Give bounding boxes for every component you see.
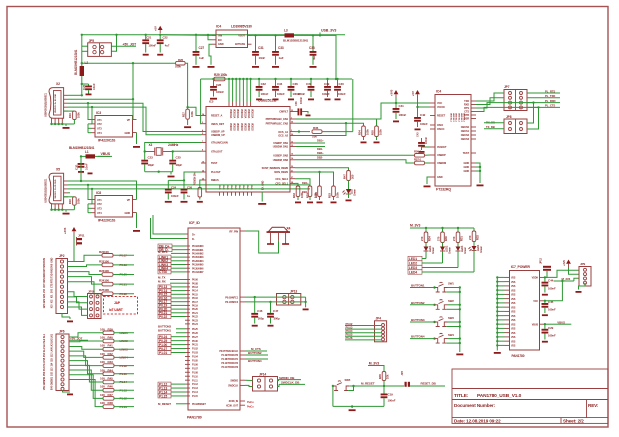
svg-text:P0.17: P0.17 bbox=[192, 301, 199, 304]
svg-text:1uF: 1uF bbox=[279, 56, 284, 60]
svg-text:PLLFILT: PLLFILT bbox=[211, 170, 221, 174]
PAN1780 left low pins bbox=[185, 328, 190, 330]
wire JP7 row extensions bbox=[504, 102, 534, 104]
wire USB_3V3 rail to caps row bbox=[214, 78, 352, 80]
svg-text:XTALOUT: XTALOUT bbox=[211, 149, 223, 153]
svg-text:100: 100 bbox=[100, 385, 105, 389]
capacitor C41 bbox=[395, 103, 397, 108]
svg-text:GND: GND bbox=[464, 161, 470, 165]
svg-text:R18: R18 bbox=[68, 199, 72, 204]
wire crystal gnd bus bbox=[145, 171, 173, 173]
svg-text:LED1: LED1 bbox=[409, 257, 417, 261]
hub top pins to rail bbox=[228, 79, 230, 102]
PAN1780 right NFC pins bbox=[240, 296, 245, 298]
svg-text:JP14: JP14 bbox=[259, 373, 266, 377]
wire L3 to USB_3V3 bbox=[294, 35, 336, 79]
svg-text:GP3: GP3 bbox=[43, 303, 46, 308]
svg-text:P1.15: P1.15 bbox=[159, 394, 167, 398]
net label DB_D- bbox=[158, 248, 172, 252]
svg-text:GND: GND bbox=[464, 169, 470, 173]
svg-text:GND: GND bbox=[236, 184, 238, 189]
svg-text:VSS: VSS bbox=[511, 299, 516, 301]
capacitor C27 bbox=[195, 35, 197, 51]
svg-text:USBDP_DN1: USBDP_DN1 bbox=[273, 141, 288, 145]
svg-text:P0.13: P0.13 bbox=[192, 286, 199, 289]
svg-text:P0.27: P0.27 bbox=[192, 336, 199, 339]
wire JP2 staircase bbox=[68, 255, 103, 261]
svg-text:X3: X3 bbox=[149, 143, 153, 147]
resistor R35 bbox=[382, 372, 386, 381]
svg-text:VCC: VCC bbox=[437, 101, 442, 105]
PAN1780 RF pin bbox=[240, 230, 245, 232]
wire R26 left bbox=[82, 62, 176, 64]
svg-text:R36: R36 bbox=[313, 126, 319, 130]
svg-text:100k: 100k bbox=[300, 192, 304, 198]
svg-text:R57 0: R57 0 bbox=[414, 158, 422, 162]
wire reset node bbox=[383, 385, 385, 387]
svg-text:R31: R31 bbox=[460, 236, 464, 241]
X5 pin stubs bbox=[64, 180, 68, 182]
svg-text:270: 270 bbox=[452, 236, 456, 241]
wire JP6 staircase bbox=[69, 370, 103, 390]
wire JP2 staircase bbox=[68, 272, 103, 275]
svg-text:100: 100 bbox=[100, 327, 105, 331]
svg-text:VIN: VIN bbox=[218, 33, 222, 37]
svg-text:100k: 100k bbox=[77, 198, 81, 204]
svg-text:R34: R34 bbox=[428, 236, 432, 241]
svg-text:P0.25: P0.25 bbox=[192, 328, 199, 331]
svg-text:VSS: VSS bbox=[511, 320, 516, 322]
svg-text:P0.20: P0.20 bbox=[192, 308, 199, 311]
module IC7_ID PAN1780 bbox=[188, 228, 240, 410]
svg-text:VDD33: VDD33 bbox=[247, 123, 250, 131]
svg-text:10k: 10k bbox=[386, 374, 390, 379]
svg-text:GND: GND bbox=[220, 184, 222, 189]
module IC7_POWER bbox=[510, 271, 540, 351]
svg-text:VSS: VSS bbox=[511, 329, 516, 331]
capacitor C24 bbox=[167, 180, 169, 188]
net label DB2_D- long wire to FT bbox=[295, 160, 415, 163]
svg-text:USBDM_DN2: USBDM_DN2 bbox=[273, 158, 289, 162]
svg-text:JP6: JP6 bbox=[59, 330, 65, 334]
svg-text:RBIAS: RBIAS bbox=[211, 178, 219, 182]
svg-text:P1.02: P1.02 bbox=[192, 348, 199, 351]
svg-text:GND: GND bbox=[224, 184, 226, 189]
svg-text:P0.10/NFC2: P0.10/NFC2 bbox=[225, 301, 238, 304]
svg-text:1uF: 1uF bbox=[199, 56, 204, 60]
svg-text:VDDH: VDDH bbox=[532, 277, 539, 280]
svg-text:100nF: 100nF bbox=[216, 90, 224, 94]
capacitor C40 bbox=[337, 79, 339, 86]
connector JP13 bbox=[277, 294, 301, 306]
svg-text:P1.10: P1.10 bbox=[192, 375, 199, 378]
svg-text:VP: VP bbox=[127, 118, 131, 122]
svg-text:VDD33: VDD33 bbox=[243, 123, 246, 131]
capacitor C22 bbox=[159, 35, 161, 40]
svg-text:M_RESET: M_RESET bbox=[361, 382, 375, 386]
svg-text:R39: R39 bbox=[108, 327, 114, 331]
switch SW2 bbox=[431, 304, 435, 306]
svg-text:GND: GND bbox=[125, 131, 131, 135]
net label DB1_D+ bbox=[295, 142, 325, 144]
capacitor C39 bbox=[327, 79, 329, 86]
svg-text:USBDP_DN2: USBDP_DN2 bbox=[273, 154, 288, 158]
net label rows P1.1x bbox=[158, 382, 171, 386]
svg-text:R33: R33 bbox=[292, 193, 296, 198]
svg-text:CTS0: CTS0 bbox=[159, 270, 167, 274]
svg-text:100k: 100k bbox=[190, 111, 194, 117]
svg-text:PwCu: PwCu bbox=[247, 401, 254, 404]
wire JP6 staircase bbox=[69, 333, 103, 337]
svg-text:VBUS D- D+ ID GND: VBUS D- D+ ID GND bbox=[55, 179, 57, 199]
svg-text:200: 200 bbox=[351, 174, 355, 179]
svg-text:VSS: VSS bbox=[511, 307, 516, 309]
hub IC USB2512B bbox=[206, 107, 290, 193]
svg-text:P0.04/AIN2: P0.04/AIN2 bbox=[192, 253, 204, 256]
wire X2 to IC3 pins bbox=[88, 103, 91, 119]
pullup resistor R50 bbox=[295, 172, 320, 186]
svg-text:C39: C39 bbox=[324, 82, 330, 86]
resistor R42 100 bbox=[103, 356, 114, 360]
wire JP2 pin1 to +3V3 bbox=[68, 252, 75, 262]
svg-text:C21: C21 bbox=[146, 35, 151, 39]
svg-text:R43: R43 bbox=[108, 360, 114, 364]
svg-text:C24: C24 bbox=[171, 186, 176, 190]
svg-text:JP11: JP11 bbox=[78, 234, 85, 238]
svg-text:C36: C36 bbox=[294, 101, 298, 106]
svg-text:R21100: R21100 bbox=[99, 250, 109, 254]
button common rail to gnd bbox=[459, 288, 461, 353]
wire VDDH node bbox=[545, 271, 547, 277]
svg-text:100: 100 bbox=[100, 352, 105, 356]
svg-text:VBUS: VBUS bbox=[532, 323, 539, 326]
wire JP2 staircase bbox=[68, 282, 103, 294]
svg-text:100: 100 bbox=[100, 360, 105, 364]
resistor R44 100 bbox=[103, 372, 114, 376]
X2 shield GND pins bbox=[51, 118, 53, 124]
svg-text:UT1: UT1 bbox=[97, 198, 102, 202]
svg-text:P0.07/TRACECLK: P0.07/TRACECLK bbox=[219, 350, 238, 353]
svg-text:100k: 100k bbox=[379, 129, 383, 135]
svg-text:XC0K_IN: XC0K_IN bbox=[229, 400, 239, 403]
svg-text:100nF: 100nF bbox=[420, 122, 428, 126]
svg-text:PAN1780: PAN1780 bbox=[512, 354, 525, 358]
svg-text:VSS: VSS bbox=[511, 346, 516, 348]
svg-text:100k: 100k bbox=[175, 65, 181, 69]
svg-text:IC4: IC4 bbox=[436, 90, 441, 94]
resistor R21 100 bbox=[102, 254, 113, 258]
JP6 GND bbox=[63, 391, 71, 393]
svg-text:UT2: UT2 bbox=[97, 202, 102, 206]
svg-text:RTS: RTS bbox=[51, 278, 54, 283]
svg-text:100: 100 bbox=[100, 401, 105, 405]
svg-text:PAN1780_USB_V1.0: PAN1780_USB_V1.0 bbox=[477, 393, 522, 399]
svg-text:3V3OUT: 3V3OUT bbox=[437, 145, 447, 149]
capacitor C26 bbox=[183, 180, 185, 188]
svg-text:VSS: VSS bbox=[511, 337, 516, 339]
svg-text:P0.08: P0.08 bbox=[192, 282, 199, 285]
svg-text:IC7_POWER: IC7_POWER bbox=[511, 265, 531, 269]
hub right pin stubs bbox=[290, 111, 295, 113]
wire XTALIN to crystal bbox=[145, 143, 201, 160]
wire 3V3 rail drop bbox=[352, 79, 354, 132]
svg-text:IP4220CZ6: IP4220CZ6 bbox=[98, 139, 115, 143]
svg-text:JP9: JP9 bbox=[580, 262, 585, 266]
svg-text:R19: R19 bbox=[68, 113, 72, 118]
svg-text:ICF_ID: ICF_ID bbox=[189, 221, 200, 225]
svg-text:GND: GND bbox=[218, 42, 224, 46]
svg-text:P1.09/TRCDAT0: P1.09/TRCDAT0 bbox=[221, 354, 238, 357]
svg-text:R53: R53 bbox=[328, 193, 332, 198]
svg-text:UT3: UT3 bbox=[97, 127, 102, 131]
svg-text:EX_GND: EX_GND bbox=[262, 180, 265, 190]
inductor L2 bbox=[80, 66, 84, 76]
svg-text:CMFILT: CMFILT bbox=[279, 110, 288, 114]
svg-text:P1.11: P1.11 bbox=[192, 379, 198, 382]
svg-text:P0.21: P0.21 bbox=[192, 312, 199, 315]
svg-text:JP10: JP10 bbox=[88, 290, 95, 294]
hub bottom pin stubs bbox=[219, 192, 221, 196]
svg-text:100nF: 100nF bbox=[261, 92, 269, 96]
wire SW5 left drop bbox=[332, 386, 334, 406]
wire JP6 staircase bbox=[69, 356, 103, 366]
svg-text:R23: R23 bbox=[306, 193, 310, 198]
svg-text:C40: C40 bbox=[339, 82, 345, 86]
svg-text:R29 100k: R29 100k bbox=[214, 73, 227, 77]
svg-text:VDD33A: VDD33A bbox=[243, 109, 246, 119]
svg-text:GND: GND bbox=[228, 184, 230, 189]
svg-text:R44: R44 bbox=[108, 368, 114, 372]
svg-text:R46: R46 bbox=[108, 385, 114, 389]
wire JP6 staircase bbox=[69, 365, 103, 382]
svg-text:270: 270 bbox=[437, 236, 441, 241]
svg-text:GP2: GP2 bbox=[43, 298, 46, 303]
svg-text:100nF: 100nF bbox=[548, 333, 556, 337]
svg-text:USBDP: USBDP bbox=[437, 153, 446, 157]
hub left pin stubs bbox=[201, 115, 206, 117]
LED3 bbox=[457, 243, 459, 247]
svg-text:PRTPWR/LBC_EN2: PRTPWR/LBC_EN2 bbox=[266, 121, 289, 125]
svg-text:P0.30: P0.30 bbox=[192, 340, 199, 343]
crystal X3 24MHz bbox=[154, 148, 156, 156]
svg-text:VBUS_DET: VBUS_DET bbox=[211, 122, 225, 126]
wire +5V rail bbox=[82, 35, 345, 56]
svg-text:UT1: UT1 bbox=[97, 118, 102, 122]
svg-text:IC8: IC8 bbox=[96, 191, 101, 195]
resistor R36 OCS bbox=[295, 131, 310, 133]
svg-text:R45: R45 bbox=[108, 377, 114, 381]
svg-text:P0.30/AIN6: P0.30/AIN6 bbox=[192, 267, 204, 270]
svg-text:R47: R47 bbox=[108, 393, 114, 397]
svg-text:4u7: 4u7 bbox=[312, 55, 316, 60]
wire JP6 staircase bbox=[69, 346, 103, 349]
svg-text:XC0K_OUT: XC0K_OUT bbox=[226, 404, 239, 407]
IC7_POWER left gnd rail bbox=[496, 277, 498, 350]
svg-text:P0.22: P0.22 bbox=[192, 316, 199, 319]
svg-text:OSCO: OSCO bbox=[437, 127, 444, 131]
svg-text:CFG_SEL0: CFG_SEL0 bbox=[275, 177, 288, 181]
svg-text:C33: C33 bbox=[278, 46, 284, 50]
svg-text:VDD33A: VDD33A bbox=[240, 109, 243, 119]
capacitor C30 bbox=[80, 156, 82, 163]
svg-text:C47: C47 bbox=[273, 309, 279, 313]
svg-text:BLM15HB121SN1: BLM15HB121SN1 bbox=[69, 146, 95, 150]
resistor R46 100 bbox=[103, 388, 114, 392]
net labels LED1-4 bbox=[408, 256, 422, 260]
svg-text:C20: C20 bbox=[82, 84, 86, 90]
svg-text:IC5: IC5 bbox=[209, 100, 214, 104]
svg-text:100: 100 bbox=[100, 377, 105, 381]
svg-text:X5: X5 bbox=[56, 168, 60, 172]
svg-text:SW4: SW4 bbox=[448, 333, 454, 337]
svg-text:VDD33: VDD33 bbox=[229, 123, 232, 131]
svg-text:Green: Green bbox=[448, 246, 452, 254]
svg-text:TITLE:: TITLE: bbox=[454, 393, 469, 399]
svg-text:Green: Green bbox=[431, 246, 435, 254]
svg-text:100: 100 bbox=[100, 368, 105, 372]
svg-text:R25100: R25100 bbox=[99, 288, 109, 292]
svg-text:P1.03: P1.03 bbox=[192, 352, 199, 355]
svg-text:RESET: RESET bbox=[437, 114, 446, 118]
svg-text:R48: R48 bbox=[108, 401, 114, 405]
svg-text:10nF: 10nF bbox=[92, 83, 96, 90]
svg-text:24MHz: 24MHz bbox=[168, 143, 179, 147]
resistor R55 bbox=[375, 126, 379, 137]
resistor R30 bbox=[442, 228, 444, 232]
svg-text:C30: C30 bbox=[75, 164, 79, 170]
svg-text:USB4291B(S)USB5Z1: USB4291B(S)USB5Z1 bbox=[45, 178, 48, 203]
svg-text:R24100: R24100 bbox=[99, 279, 109, 283]
svg-text:P0.16: P0.16 bbox=[192, 297, 199, 300]
svg-text:P0.23: P0.23 bbox=[192, 319, 199, 322]
resistor R27 bbox=[185, 63, 188, 109]
svg-text:Green: Green bbox=[479, 245, 483, 253]
IC7_POWER VDDH pin bbox=[540, 276, 545, 278]
svg-text:Date: 12.08.2019 09:22: Date: 12.08.2019 09:22 bbox=[454, 418, 501, 423]
wire PLLFILT filter bus bbox=[184, 172, 201, 180]
resistor R32 bbox=[473, 228, 475, 231]
svg-text:100: 100 bbox=[100, 336, 105, 340]
svg-text:NON_REM1: NON_REM1 bbox=[274, 170, 288, 174]
switch SW4 bbox=[431, 338, 435, 340]
svg-text:M_3V3: M_3V3 bbox=[410, 224, 420, 228]
connector JP5 bbox=[88, 43, 112, 57]
resistor R48 100 bbox=[103, 405, 114, 409]
resistor R19 bbox=[64, 110, 74, 112]
svg-text:C36: C36 bbox=[293, 82, 299, 86]
capacitor C38 bbox=[312, 35, 314, 51]
IC7_POWER VCC pin bbox=[540, 300, 545, 302]
svg-text:USBDM_UP: USBDM_UP bbox=[211, 133, 225, 137]
svg-text:VDD33A: VDD33A bbox=[233, 109, 236, 119]
svg-text:P1.13: P1.13 bbox=[192, 387, 199, 390]
svg-text:100nF: 100nF bbox=[277, 92, 285, 96]
svg-text:P0.09/NFC1: P0.09/NFC1 bbox=[225, 296, 238, 299]
svg-text:C22: C22 bbox=[163, 35, 168, 39]
wire JP2 staircase bbox=[68, 265, 103, 267]
svg-text:X4: X4 bbox=[286, 227, 290, 231]
svg-text:Green: Green bbox=[353, 188, 357, 196]
svg-text:100nF: 100nF bbox=[424, 136, 428, 144]
svg-text:SWDCLK: SWDCLK bbox=[228, 385, 238, 388]
svg-text:GND: GND bbox=[51, 257, 54, 262]
svg-text:P0.31/AIN7: P0.31/AIN7 bbox=[192, 271, 204, 274]
svg-text:VOUT: VOUT bbox=[238, 33, 245, 37]
svg-text:JP4: JP4 bbox=[376, 317, 382, 321]
svg-text:100nF: 100nF bbox=[548, 308, 556, 312]
svg-text:VDD33A: VDD33A bbox=[229, 109, 232, 119]
svg-text:IoT UART: IoT UART bbox=[109, 308, 123, 312]
svg-text:P1.01: P1.01 bbox=[159, 351, 167, 355]
svg-text:D-: D- bbox=[192, 237, 195, 241]
capacitor C36 bbox=[290, 79, 292, 86]
svg-text:C41: C41 bbox=[399, 104, 405, 108]
svg-text:P0.06: P0.06 bbox=[192, 279, 199, 282]
svg-text:M_RX: M_RX bbox=[158, 279, 166, 283]
svg-text:18pF: 18pF bbox=[148, 163, 155, 167]
capacitor C45 bbox=[544, 301, 546, 303]
svg-text:P0.05/AIN3: P0.05/AIN3 bbox=[192, 256, 204, 259]
wire ICF_ID top left bbox=[153, 215, 185, 234]
wire OCS_A2 bbox=[295, 123, 346, 135]
wire JP6 staircase bbox=[69, 375, 103, 399]
svg-text:VSS: VSS bbox=[511, 333, 516, 335]
ESD protection IC8 bbox=[95, 196, 133, 218]
svg-text:VBUS: VBUS bbox=[101, 152, 111, 156]
USB-UART IC4 FT232RQ bbox=[435, 95, 471, 187]
JP9 GND bbox=[579, 283, 586, 290]
LED4 bbox=[473, 242, 475, 247]
svg-text:GND: GND bbox=[240, 184, 242, 189]
svg-text:C43: C43 bbox=[416, 132, 420, 137]
svg-text:100k: 100k bbox=[336, 192, 340, 198]
switch SW3 bbox=[431, 321, 435, 323]
svg-text:C44: C44 bbox=[548, 279, 554, 283]
svg-text:CBUS0: CBUS0 bbox=[461, 125, 470, 129]
svg-text:100nF: 100nF bbox=[171, 194, 179, 198]
svg-text:LED3: LED3 bbox=[409, 266, 417, 270]
svg-text:100k: 100k bbox=[366, 129, 370, 135]
JP2 GND bbox=[62, 314, 70, 318]
power arrow +5V FT bbox=[415, 90, 420, 94]
svg-text:18pF: 18pF bbox=[176, 163, 183, 167]
capacitor C43 bbox=[422, 146, 431, 148]
svg-text:+5V: +5V bbox=[411, 91, 415, 96]
svg-text:RTS: RTS bbox=[464, 106, 469, 110]
svg-text:C23: C23 bbox=[148, 156, 154, 160]
svg-text:R55: R55 bbox=[371, 130, 375, 135]
svg-text:JAP: JAP bbox=[114, 301, 121, 305]
svg-text:P0.02/AIN0: P0.02/AIN0 bbox=[192, 245, 204, 248]
svg-text:JP2: JP2 bbox=[59, 254, 65, 258]
svg-text:SWDIO: SWDIO bbox=[230, 379, 238, 382]
label BUTTON4 bbox=[245, 358, 247, 360]
svg-text:IC4: IC4 bbox=[216, 25, 221, 29]
svg-text:CBUS1: CBUS1 bbox=[461, 129, 470, 133]
capacitor C47 bbox=[270, 302, 272, 313]
X5 shield GND pins bbox=[51, 204, 53, 210]
net label DB_D+ bbox=[158, 244, 172, 248]
net label DB2_D+ long wire to FT bbox=[295, 154, 415, 156]
svg-text:P0.12/TRCDAT2: P0.12/TRCDAT2 bbox=[221, 362, 238, 365]
svg-text:DB2+: DB2+ bbox=[317, 151, 324, 155]
antenna X4 bbox=[245, 231, 279, 253]
connector JP10 bbox=[88, 294, 102, 319]
svg-text:4u7: 4u7 bbox=[165, 43, 170, 47]
IC7_POWER VBUS pin bbox=[540, 323, 545, 325]
svg-text:100nF: 100nF bbox=[299, 96, 303, 104]
LED1 bbox=[425, 243, 427, 247]
